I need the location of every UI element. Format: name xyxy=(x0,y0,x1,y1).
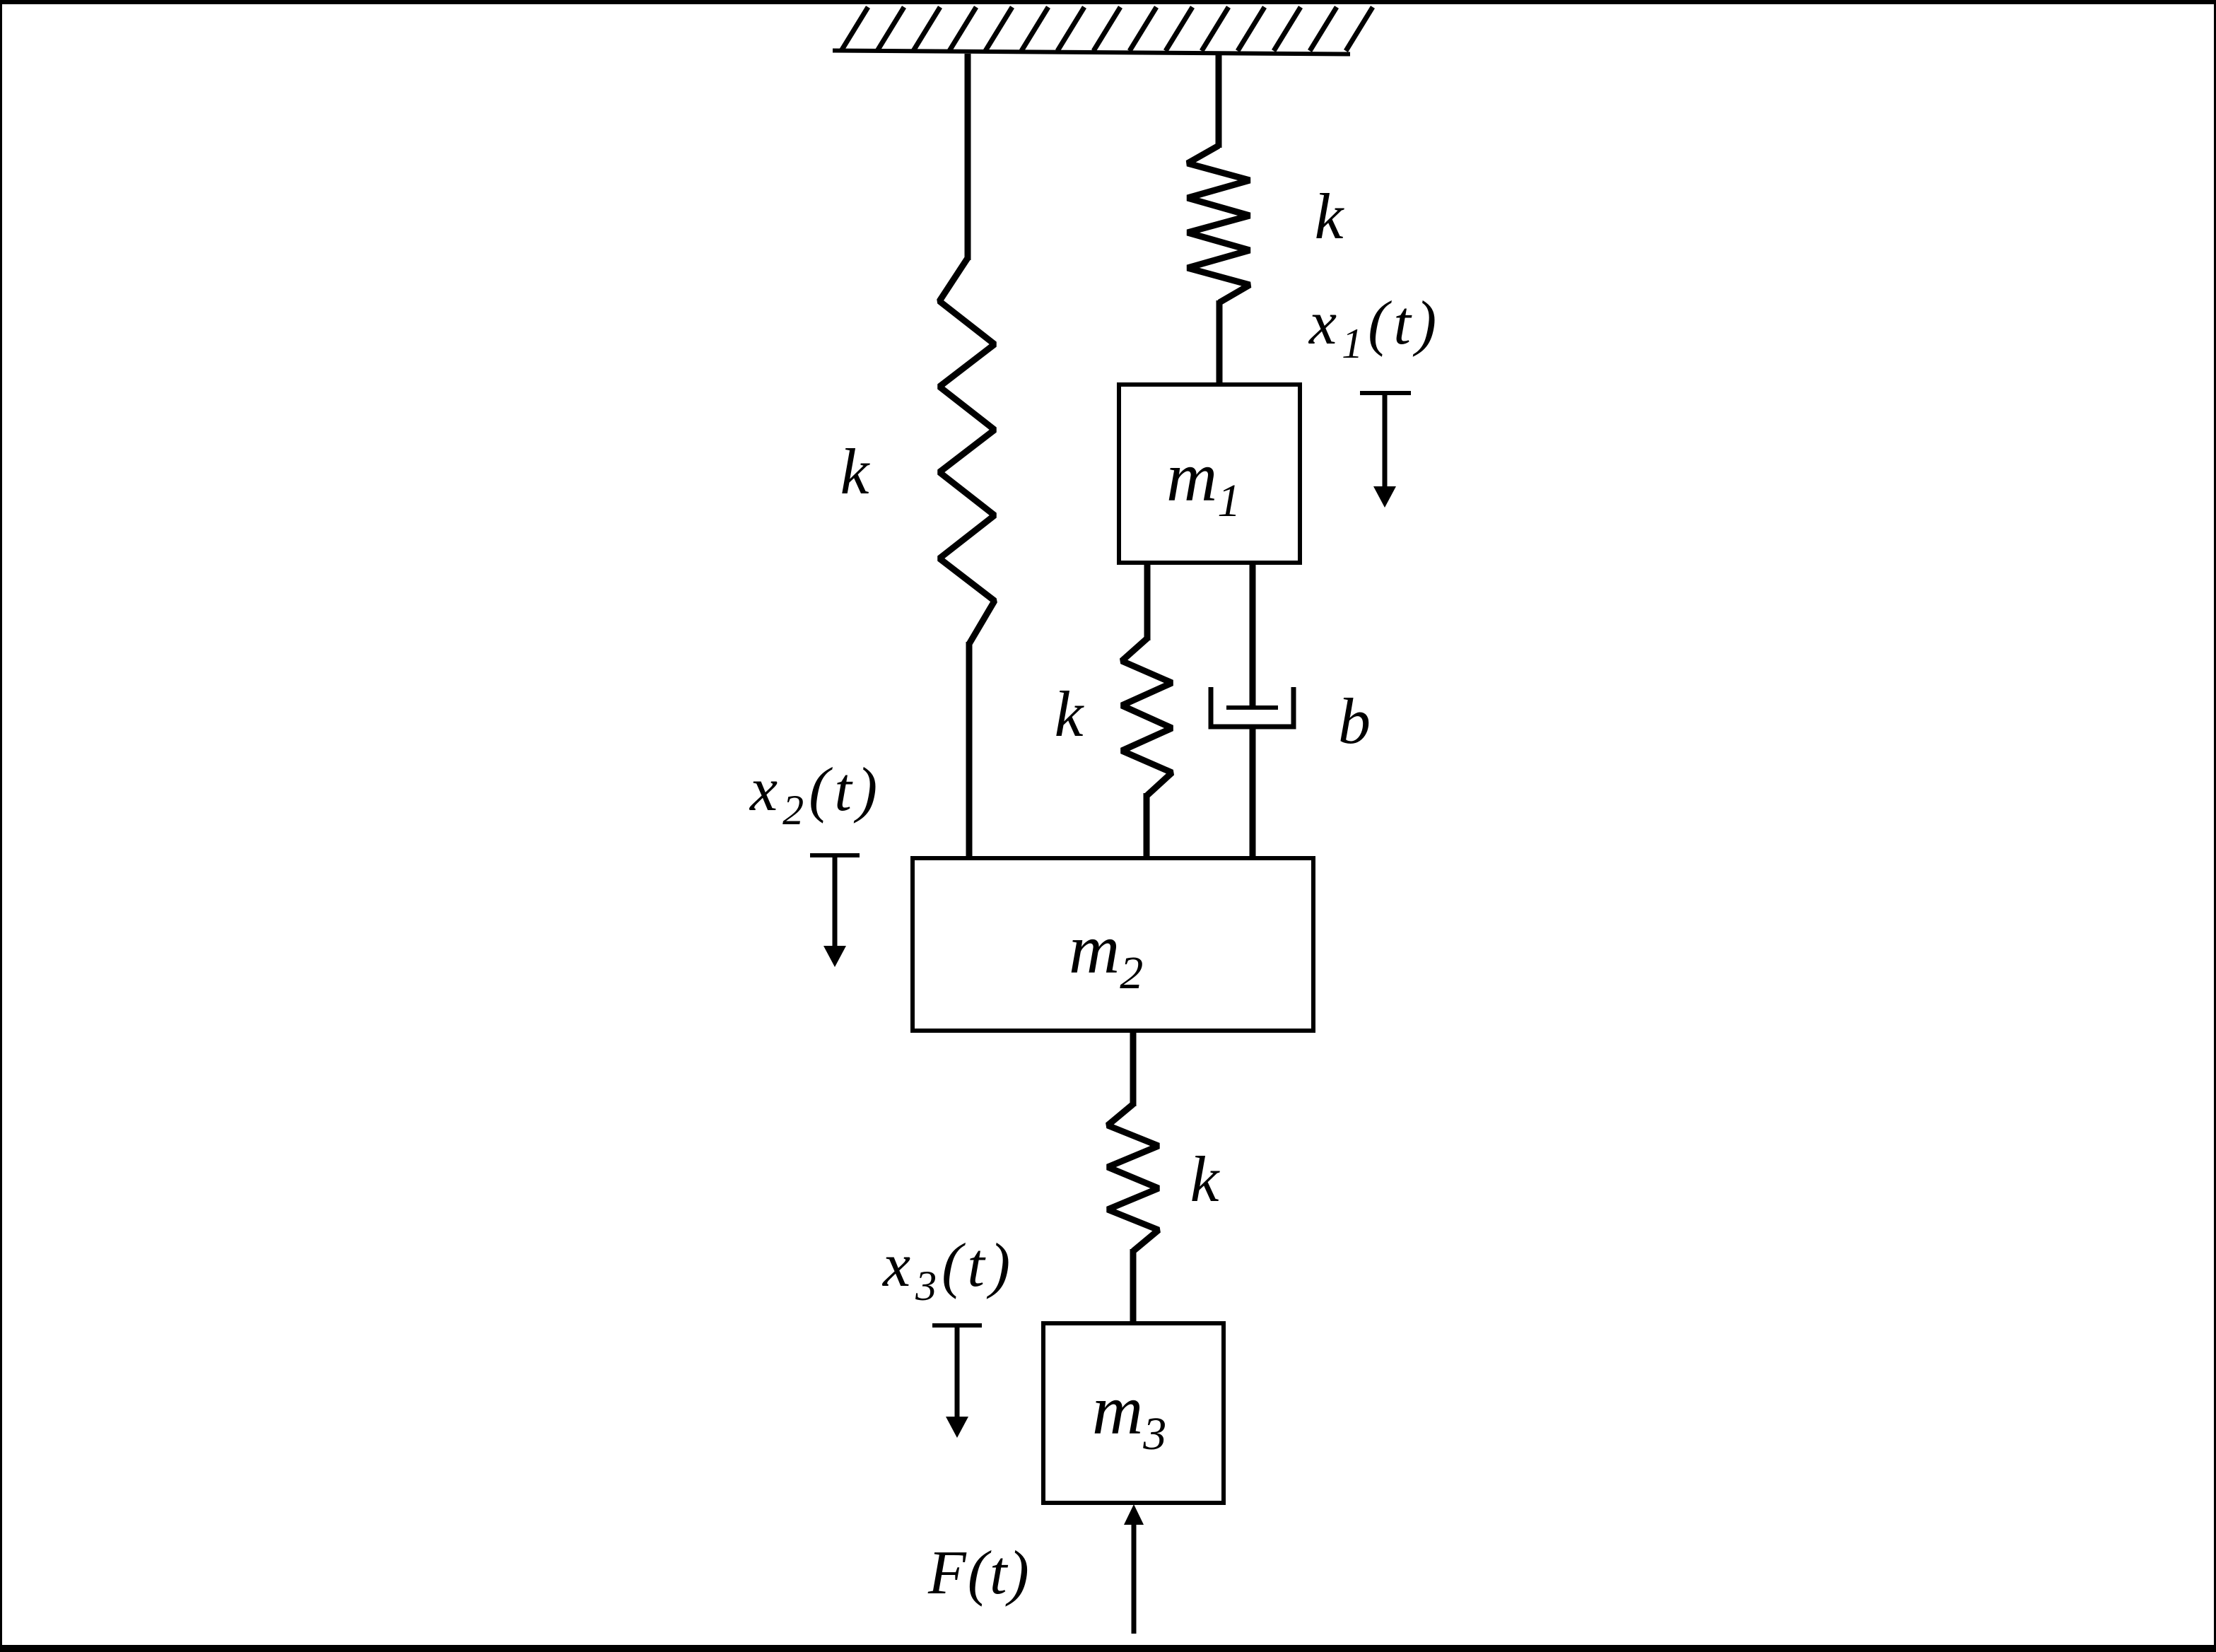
wire top spring to m1 xyxy=(1217,300,1223,387)
svg-text:x1(t): x1(t) xyxy=(1308,289,1441,367)
svg-text:x3(t): x3(t) xyxy=(881,1231,1015,1309)
arrow x3 downward xyxy=(932,1325,982,1438)
spring k (left, ceiling to m2) xyxy=(939,258,995,644)
damper b piston plate xyxy=(1226,705,1278,710)
page border bottom xyxy=(0,1645,2216,1652)
svg-text:k: k xyxy=(1190,1143,1221,1215)
ceiling (fixed support) xyxy=(833,7,1373,54)
wire ceiling to left spring k xyxy=(965,54,971,260)
spring k (middle, m1 to m2) xyxy=(1122,638,1172,795)
force F(t) arrow upward into m3 xyxy=(1124,1504,1144,1634)
wire middle spring to m2 xyxy=(1144,793,1150,860)
svg-text:k: k xyxy=(1315,180,1345,252)
svg-text:k: k xyxy=(840,435,871,508)
wire m1 to middle spring k xyxy=(1144,563,1151,640)
mass m2 xyxy=(913,858,1313,1031)
wire bottom spring to m3 xyxy=(1130,1249,1137,1325)
spring k (top, ceiling to m1) xyxy=(1188,146,1250,303)
page border top xyxy=(0,0,2216,4)
damper b rod bottom xyxy=(1250,727,1256,860)
svg-text:k: k xyxy=(1055,678,1085,750)
arrow x2 downward xyxy=(810,855,860,967)
svg-text:b: b xyxy=(1338,685,1371,757)
wire left spring to m2 xyxy=(966,642,973,860)
wire ceiling to top spring k xyxy=(1216,54,1222,148)
mass m3 xyxy=(1043,1323,1224,1503)
damper b rod top xyxy=(1250,563,1256,708)
mass m1 xyxy=(1119,385,1300,563)
page border right xyxy=(2214,0,2216,1652)
wire m2 to bottom spring k xyxy=(1130,1031,1137,1106)
page border left xyxy=(0,0,2,1652)
damper b cylinder cup xyxy=(1211,687,1294,727)
svg-text:x2(t): x2(t) xyxy=(749,756,882,833)
spring k (bottom, m2 to m3) xyxy=(1108,1104,1159,1251)
arrow x1 downward xyxy=(1360,393,1411,508)
svg-text:F(t): F(t) xyxy=(927,1539,1031,1607)
